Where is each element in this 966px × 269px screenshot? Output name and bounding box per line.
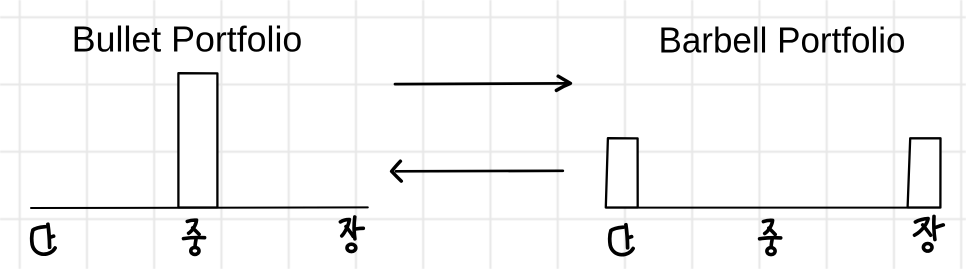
left-pointing arrow head bbox=[392, 161, 402, 181]
left chart axis bbox=[31, 206, 368, 209]
korean label dan (left chart) bbox=[32, 224, 55, 254]
left chart middle bar bbox=[178, 73, 217, 207]
korean label dan (right chart) bbox=[610, 225, 633, 255]
right chart axis bbox=[606, 207, 940, 209]
korean label jung (left chart) bbox=[184, 220, 205, 254]
right-pointing arrow head bbox=[556, 76, 570, 90]
svg-text:Barbell Portfolio: Barbell Portfolio bbox=[659, 19, 906, 60]
right chart right bar bbox=[908, 138, 941, 207]
right-pointing arrow shaft bbox=[395, 82, 566, 85]
right chart left bar bbox=[606, 138, 638, 207]
svg-text:Bullet Portfolio: Bullet Portfolio bbox=[72, 18, 302, 59]
korean label jang (right chart) bbox=[915, 216, 944, 251]
left-pointing arrow shaft bbox=[396, 169, 563, 172]
korean label jung (right chart) bbox=[760, 220, 781, 254]
korean label jang (left chart) bbox=[340, 217, 363, 252]
